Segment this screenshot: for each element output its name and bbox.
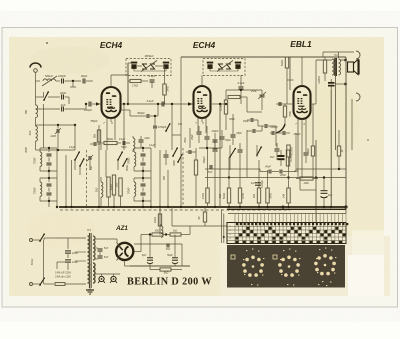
wire C26 xyxy=(323,178,325,191)
wire V3 top xyxy=(301,57,303,86)
svg-text:7000: 7000 xyxy=(127,157,131,164)
resistor R7 xyxy=(228,95,240,98)
wire C1-C2 xyxy=(65,80,82,82)
tube V1 pins xyxy=(121,103,129,105)
wire AZ1 out xyxy=(134,251,141,253)
svg-text:1MΩ: 1MΩ xyxy=(303,182,308,185)
switch S6 gang xyxy=(173,148,177,156)
socket specks 1 xyxy=(246,250,247,251)
IF T2 core coil right xyxy=(235,62,241,64)
wire c27 c28 xyxy=(95,247,98,249)
transformer Tr1 core xyxy=(88,233,90,288)
wire x346 col xyxy=(345,57,347,207)
wire L2 down xyxy=(35,118,37,127)
resistor R6 xyxy=(224,100,227,114)
svg-text:250pF: 250pF xyxy=(292,133,301,136)
svg-text:50kΩ: 50kΩ xyxy=(280,60,284,66)
svg-text:45nF: 45nF xyxy=(280,173,286,177)
svg-text:50pF: 50pF xyxy=(225,139,231,142)
svg-text:350: 350 xyxy=(25,109,28,114)
wire C2 right xyxy=(86,80,93,82)
capacitor C12 1700p xyxy=(153,125,157,127)
svg-text:5kΩ: 5kΩ xyxy=(164,272,169,275)
resistor R22 riser2 xyxy=(203,212,206,222)
resistor R12 xyxy=(238,188,241,203)
svg-text:10pF: 10pF xyxy=(144,137,150,140)
svg-text:BERLIN D 200 W: BERLIN D 200 W xyxy=(127,277,212,288)
wire ant trunk xyxy=(35,81,37,105)
wire detector mesh xyxy=(218,103,226,105)
mains terminal top xyxy=(30,239,33,242)
coil L2 ant xyxy=(36,105,38,118)
svg-text:0.1μF: 0.1μF xyxy=(149,144,156,147)
dashed gang line 2 xyxy=(182,148,184,206)
resistor R3 xyxy=(119,178,122,196)
resistor R29 1M h xyxy=(300,177,313,180)
svg-text:8μF: 8μF xyxy=(142,254,147,257)
resistor R21 riser xyxy=(158,214,161,226)
wire C30 xyxy=(149,235,151,258)
svg-text:0.5M: 0.5M xyxy=(241,192,245,199)
wire link row 226 xyxy=(172,225,316,227)
wire V3 left col xyxy=(275,126,277,146)
wire V1 top xyxy=(110,75,112,87)
wire C14 xyxy=(261,90,263,94)
svg-text:100pF: 100pF xyxy=(203,156,206,164)
svg-text:6300: 6300 xyxy=(173,160,176,166)
svg-text:10kΩ: 10kΩ xyxy=(154,217,157,223)
svg-text:700k: 700k xyxy=(289,111,292,117)
wire bf mid join xyxy=(142,171,144,178)
svg-text:550pF: 550pF xyxy=(90,120,98,123)
wire x155 down xyxy=(154,140,156,148)
wire af row 169 xyxy=(205,168,260,170)
chassis bus main xyxy=(59,206,346,208)
choke L9 xyxy=(161,226,163,237)
trimmer C7 padder xyxy=(88,156,90,160)
svg-text:5nF: 5nF xyxy=(104,256,109,259)
capacitor C42 r xyxy=(252,129,254,133)
svg-text:5nF: 5nF xyxy=(166,248,171,251)
capacitor C27 5nF xyxy=(98,248,103,250)
capacitor C1 100pF xyxy=(61,79,63,84)
coil L3 ant 500 xyxy=(36,126,38,141)
svg-text:1700pF: 1700pF xyxy=(157,125,166,129)
coil L6 osc xyxy=(101,182,103,197)
svg-text:50kΩ: 50kΩ xyxy=(110,184,114,190)
tube V3 pins xyxy=(297,119,299,127)
svg-text:0.1μF: 0.1μF xyxy=(69,146,76,149)
wire R2R3 bus xyxy=(113,195,115,207)
switch S2 wave xyxy=(75,152,79,160)
heater lamp E2 xyxy=(111,276,116,281)
schematic paper background xyxy=(9,37,384,296)
capacitor C37 56pF xyxy=(122,141,124,145)
svg-text:100pF: 100pF xyxy=(58,74,66,78)
svg-text:7000: 7000 xyxy=(127,187,131,194)
dashed gang line 1 xyxy=(86,150,88,206)
arrow into V2 grid xyxy=(188,102,193,106)
capacitor C16 250pF xyxy=(264,124,266,128)
resistor R23 27k xyxy=(206,188,209,203)
wire speaker top xyxy=(323,51,354,53)
wire y135 link xyxy=(172,134,181,136)
capacitor C33 under V2 xyxy=(205,136,210,138)
wire y150 left xyxy=(40,149,75,151)
wire L1 to C1 xyxy=(56,80,60,82)
wire x106 col xyxy=(105,150,107,177)
wire x331 down xyxy=(330,90,332,207)
capacitor C40 v2b xyxy=(220,136,225,138)
wire L6 ends xyxy=(100,177,102,182)
wire x58 down xyxy=(57,133,59,148)
capacitor C19 xyxy=(213,148,218,150)
capacitor C38 10pF xyxy=(139,139,144,141)
wire table feed xyxy=(228,213,346,215)
svg-text:2nF: 2nF xyxy=(293,170,299,173)
wire v3 pin drops xyxy=(297,127,299,178)
wire R4 xyxy=(128,80,130,82)
wire row3 xyxy=(36,108,61,110)
capacitor C30 8uF xyxy=(147,257,153,259)
wire C4 right xyxy=(65,96,70,98)
antenna A1 xyxy=(30,63,41,68)
svg-text:350: 350 xyxy=(163,175,166,180)
band filter L8 group xyxy=(134,182,136,196)
wire V1 anode right xyxy=(127,63,129,104)
wire table left feeders xyxy=(221,209,223,243)
svg-text:30Ω: 30Ω xyxy=(155,230,160,233)
wire x66 down xyxy=(65,155,67,207)
resistor R14 xyxy=(266,188,269,203)
svg-text:7500: 7500 xyxy=(33,157,37,164)
wire C9 xyxy=(151,82,153,88)
switch S7 xyxy=(257,147,261,155)
svg-text:250pF: 250pF xyxy=(269,125,278,129)
resistor R1 osc xyxy=(107,177,110,197)
capacitor C21 xyxy=(275,148,280,150)
wire bf mid to bus xyxy=(142,201,144,207)
svg-text:140V: 140V xyxy=(72,260,78,264)
wire sel to tr xyxy=(75,251,86,253)
resistor R2 xyxy=(112,175,115,195)
wire tr1 sec top xyxy=(95,238,117,240)
tube socket diagram 2 xyxy=(287,255,291,259)
capacitor C5 2pF xyxy=(61,107,63,112)
svg-text:2pF: 2pF xyxy=(60,103,66,107)
capacitor C15 25pF xyxy=(250,118,252,122)
svg-text:1kΩ: 1kΩ xyxy=(173,230,178,233)
resistor R8 50k xyxy=(285,57,288,68)
svg-text:4nF: 4nF xyxy=(251,182,256,185)
resistor R10 half meg xyxy=(287,145,290,157)
switch S8 mains b xyxy=(40,278,44,285)
capacitor C39 v2a xyxy=(213,139,218,141)
svg-text:0 BA dm 110V: 0 BA dm 110V xyxy=(55,276,71,279)
svg-text:5nF: 5nF xyxy=(104,247,109,250)
svg-text:27kΩ: 27kΩ xyxy=(201,193,205,200)
tube V1 ECH4 xyxy=(102,87,121,118)
potentiometer P1 xyxy=(230,149,235,158)
svg-text:56pF: 56pF xyxy=(121,146,127,149)
svg-text:ECH4: ECH4 xyxy=(193,40,216,50)
svg-text:25nF: 25nF xyxy=(184,137,187,144)
wire top to tr xyxy=(56,237,86,239)
wire mains bottom xyxy=(33,283,41,285)
switch position table xyxy=(227,223,346,244)
capacitor C10 0.1u xyxy=(161,102,163,107)
wire af row right xyxy=(272,171,279,173)
wire bf join left xyxy=(48,171,50,178)
bus joints xyxy=(65,206,67,208)
svg-text:300Ω: 300Ω xyxy=(126,165,129,171)
junction dots bus extra xyxy=(70,206,72,208)
transformer Tr1 primary xyxy=(88,236,90,260)
wire out top xyxy=(311,103,317,105)
capacitor C26 8uF electrolytic xyxy=(321,190,328,192)
capacitor C20 xyxy=(238,149,243,151)
transformer Tr1 secondary xyxy=(93,236,95,260)
wire x71 down xyxy=(71,160,73,207)
wire x352 col xyxy=(351,99,353,150)
resistor R27 500ohm xyxy=(104,141,117,144)
wire L3 down xyxy=(35,141,37,150)
resistor R20 xyxy=(160,268,171,271)
resistor R19 xyxy=(170,233,181,236)
capacitor C4 20pF xyxy=(61,95,63,100)
svg-text:0.25μF: 0.25μF xyxy=(261,180,264,188)
svg-text:Tr2: Tr2 xyxy=(334,53,338,57)
svg-text:500: 500 xyxy=(95,187,99,192)
svg-text:200pF: 200pF xyxy=(210,130,219,133)
svg-text:1MΩ: 1MΩ xyxy=(269,193,273,199)
band filter L7 group xyxy=(134,152,136,166)
ground GND tr1 xyxy=(89,288,91,290)
wire misc col xyxy=(214,160,216,207)
switch S1 band xyxy=(44,92,48,100)
wire R8 down xyxy=(286,68,288,80)
capacitor C25 4nF xyxy=(255,182,261,184)
capacitor C11 500p xyxy=(146,114,148,118)
resistor R4 17k xyxy=(130,79,141,82)
resistor R16 1W2 xyxy=(311,146,314,156)
capacitor C44 block xyxy=(278,155,285,157)
wire v2 pin drops xyxy=(197,126,199,131)
svg-text:50k: 50k xyxy=(252,193,256,198)
tube V2 ECH4 xyxy=(194,86,211,118)
svg-text:17kΩ: 17kΩ xyxy=(132,84,138,88)
capacitor C8 xyxy=(188,150,190,154)
wire y190 link xyxy=(300,189,316,191)
tube socket diagram 1 xyxy=(251,255,255,259)
heater lamp E1 xyxy=(99,276,104,281)
speaker LS xyxy=(348,62,354,72)
svg-text:25pF: 25pF xyxy=(191,134,194,141)
IF T1 wires xyxy=(128,62,131,64)
svg-text:0.1μF: 0.1μF xyxy=(119,138,126,141)
svg-text:2000: 2000 xyxy=(25,147,28,154)
IF T2 variable coupling xyxy=(218,64,231,69)
capacitor C32 under V2 xyxy=(197,131,202,133)
svg-text:0.1μF: 0.1μF xyxy=(149,74,156,78)
capacitor C28 5nF xyxy=(98,255,103,257)
second bus line xyxy=(227,208,346,210)
resistor R28 02M xyxy=(286,150,289,166)
svg-text:0.2MΩ: 0.2MΩ xyxy=(290,154,293,162)
capacitor C18 block xyxy=(328,82,335,84)
resistor R26 EBL1 grid xyxy=(283,106,286,117)
coil L10 osc fb xyxy=(133,138,135,149)
wire C11 xyxy=(121,109,131,111)
resistor R13 xyxy=(257,188,260,203)
wire res cols xyxy=(228,157,230,188)
speck 1 xyxy=(46,42,48,44)
coil L1 antenna xyxy=(43,79,56,81)
fuse F1 xyxy=(55,283,65,286)
capacitor C24 5nF xyxy=(209,165,211,169)
wire R19 right xyxy=(181,234,190,236)
wire x247 long xyxy=(246,145,248,178)
wire x160 col xyxy=(159,150,161,207)
capacitor C36 v3 xyxy=(304,152,309,154)
svg-text:40pF: 40pF xyxy=(81,74,88,78)
wire under v2 h xyxy=(199,147,222,149)
wire stub T xyxy=(72,81,74,87)
wire C13 xyxy=(240,75,242,86)
IF T2 wires xyxy=(209,69,211,71)
svg-text:500Ω: 500Ω xyxy=(222,193,226,199)
svg-text:7500: 7500 xyxy=(33,187,37,194)
svg-text:25pF: 25pF xyxy=(242,119,249,123)
resistor R25 under V1 xyxy=(97,130,100,142)
svg-text:1100: 1100 xyxy=(50,134,56,138)
wire trim down xyxy=(89,160,91,170)
svg-text:9nF: 9nF xyxy=(270,156,275,159)
bracket plug mid xyxy=(356,93,360,101)
table feed ticks xyxy=(234,214,236,223)
svg-text:465kHz: 465kHz xyxy=(144,54,154,58)
wire osc x290 xyxy=(289,57,291,90)
svg-text:150: 150 xyxy=(219,193,222,198)
switch S8 mains a xyxy=(40,234,44,241)
wire x172 col xyxy=(171,104,173,150)
wire psu risers xyxy=(159,207,161,235)
resistor R15 xyxy=(287,188,290,203)
wire into tube1 grid xyxy=(92,103,101,105)
wire junction row y125 xyxy=(36,124,76,126)
capacitor C23 45nF xyxy=(279,170,281,174)
trimmer C14 xyxy=(260,94,265,96)
band filter L5 group xyxy=(40,182,42,196)
capacitor C13 xyxy=(239,86,244,88)
svg-text:500Ω: 500Ω xyxy=(107,138,113,141)
wire selector L xyxy=(56,262,58,269)
gang dashed linkage xyxy=(60,209,290,211)
speck 2 xyxy=(317,231,318,232)
svg-text:5nF: 5nF xyxy=(178,123,183,126)
tube V2 pins xyxy=(211,103,219,105)
IF T1 variable coupling xyxy=(142,64,155,69)
wire row 177 xyxy=(205,177,346,179)
svg-text:220V: 220V xyxy=(71,251,78,255)
wire R5 xyxy=(164,66,166,84)
wire R17 xyxy=(338,130,340,146)
bracket plug top xyxy=(356,51,360,59)
wire C31 xyxy=(174,235,176,258)
IF T1 core coil left xyxy=(131,62,137,64)
tube socket diagram 3 xyxy=(323,254,327,258)
wire C5 to grid node xyxy=(65,108,87,110)
wire x43 branch xyxy=(43,92,45,97)
svg-text:20pF: 20pF xyxy=(59,91,67,95)
svg-text:EBL1: EBL1 xyxy=(290,39,312,49)
resistor R17 1k xyxy=(337,146,340,156)
switch S5 xyxy=(123,159,127,166)
svg-text:1200Ω: 1200Ω xyxy=(318,76,321,84)
svg-text:50kHz: 50kHz xyxy=(45,74,54,78)
socket panel background xyxy=(227,245,345,288)
band filter L4 group xyxy=(40,152,42,166)
voltage selector taps xyxy=(65,250,71,252)
output transformer T3 xyxy=(332,59,334,75)
svg-text:8μF: 8μF xyxy=(328,193,333,197)
IF T1 core coil right xyxy=(163,62,169,64)
wire R6 xyxy=(225,90,227,100)
wire psu bottom row xyxy=(130,265,190,267)
wire grid line 2 xyxy=(128,103,194,105)
svg-text:24k: 24k xyxy=(282,193,286,199)
IF transformer T2 box xyxy=(203,59,245,76)
wire x316 long xyxy=(315,140,317,226)
switch S4 xyxy=(118,152,122,160)
capacitor C31 50uF xyxy=(172,257,178,259)
wire x168 col xyxy=(167,170,169,207)
capacitor C3 grid xyxy=(88,102,90,107)
IF transformer T1 box xyxy=(126,59,171,76)
svg-text:5nF: 5nF xyxy=(90,165,93,170)
mains terminal bottom xyxy=(30,283,33,286)
svg-text:300: 300 xyxy=(115,182,119,187)
svg-text:5nF: 5nF xyxy=(208,170,213,174)
wire heater row xyxy=(95,273,120,275)
resistor R24 xyxy=(194,160,197,175)
tube V3 EBL1 xyxy=(294,86,311,119)
switch S3 wave xyxy=(80,159,84,166)
wire mains top xyxy=(33,239,41,241)
wire v1 pin drops xyxy=(106,126,108,150)
svg-text:50Hz: 50Hz xyxy=(30,258,34,265)
switch S9 mid xyxy=(166,124,170,131)
wire r20 stubs xyxy=(149,266,151,270)
wire V2 top xyxy=(201,75,203,86)
resistor R9 field xyxy=(323,60,326,73)
top bus y57 xyxy=(181,56,346,58)
wire psu mid row xyxy=(134,243,182,245)
capacitor C2 40pF xyxy=(82,79,84,84)
wire switch row xyxy=(36,96,45,98)
svg-text:ECH4: ECH4 xyxy=(100,40,123,50)
wire C12 col xyxy=(154,116,156,125)
socket specks 2 xyxy=(283,250,284,251)
wire x335 down xyxy=(335,76,337,150)
resistor R5 1M xyxy=(163,84,166,95)
resistor R18 30 xyxy=(152,233,163,236)
svg-text:0.1μF: 0.1μF xyxy=(147,99,154,103)
capacitor C35 xyxy=(93,142,95,146)
svg-text:45nF: 45nF xyxy=(265,165,271,169)
wire x220 col xyxy=(219,104,221,207)
wire tr1 sec mid xyxy=(95,249,96,251)
